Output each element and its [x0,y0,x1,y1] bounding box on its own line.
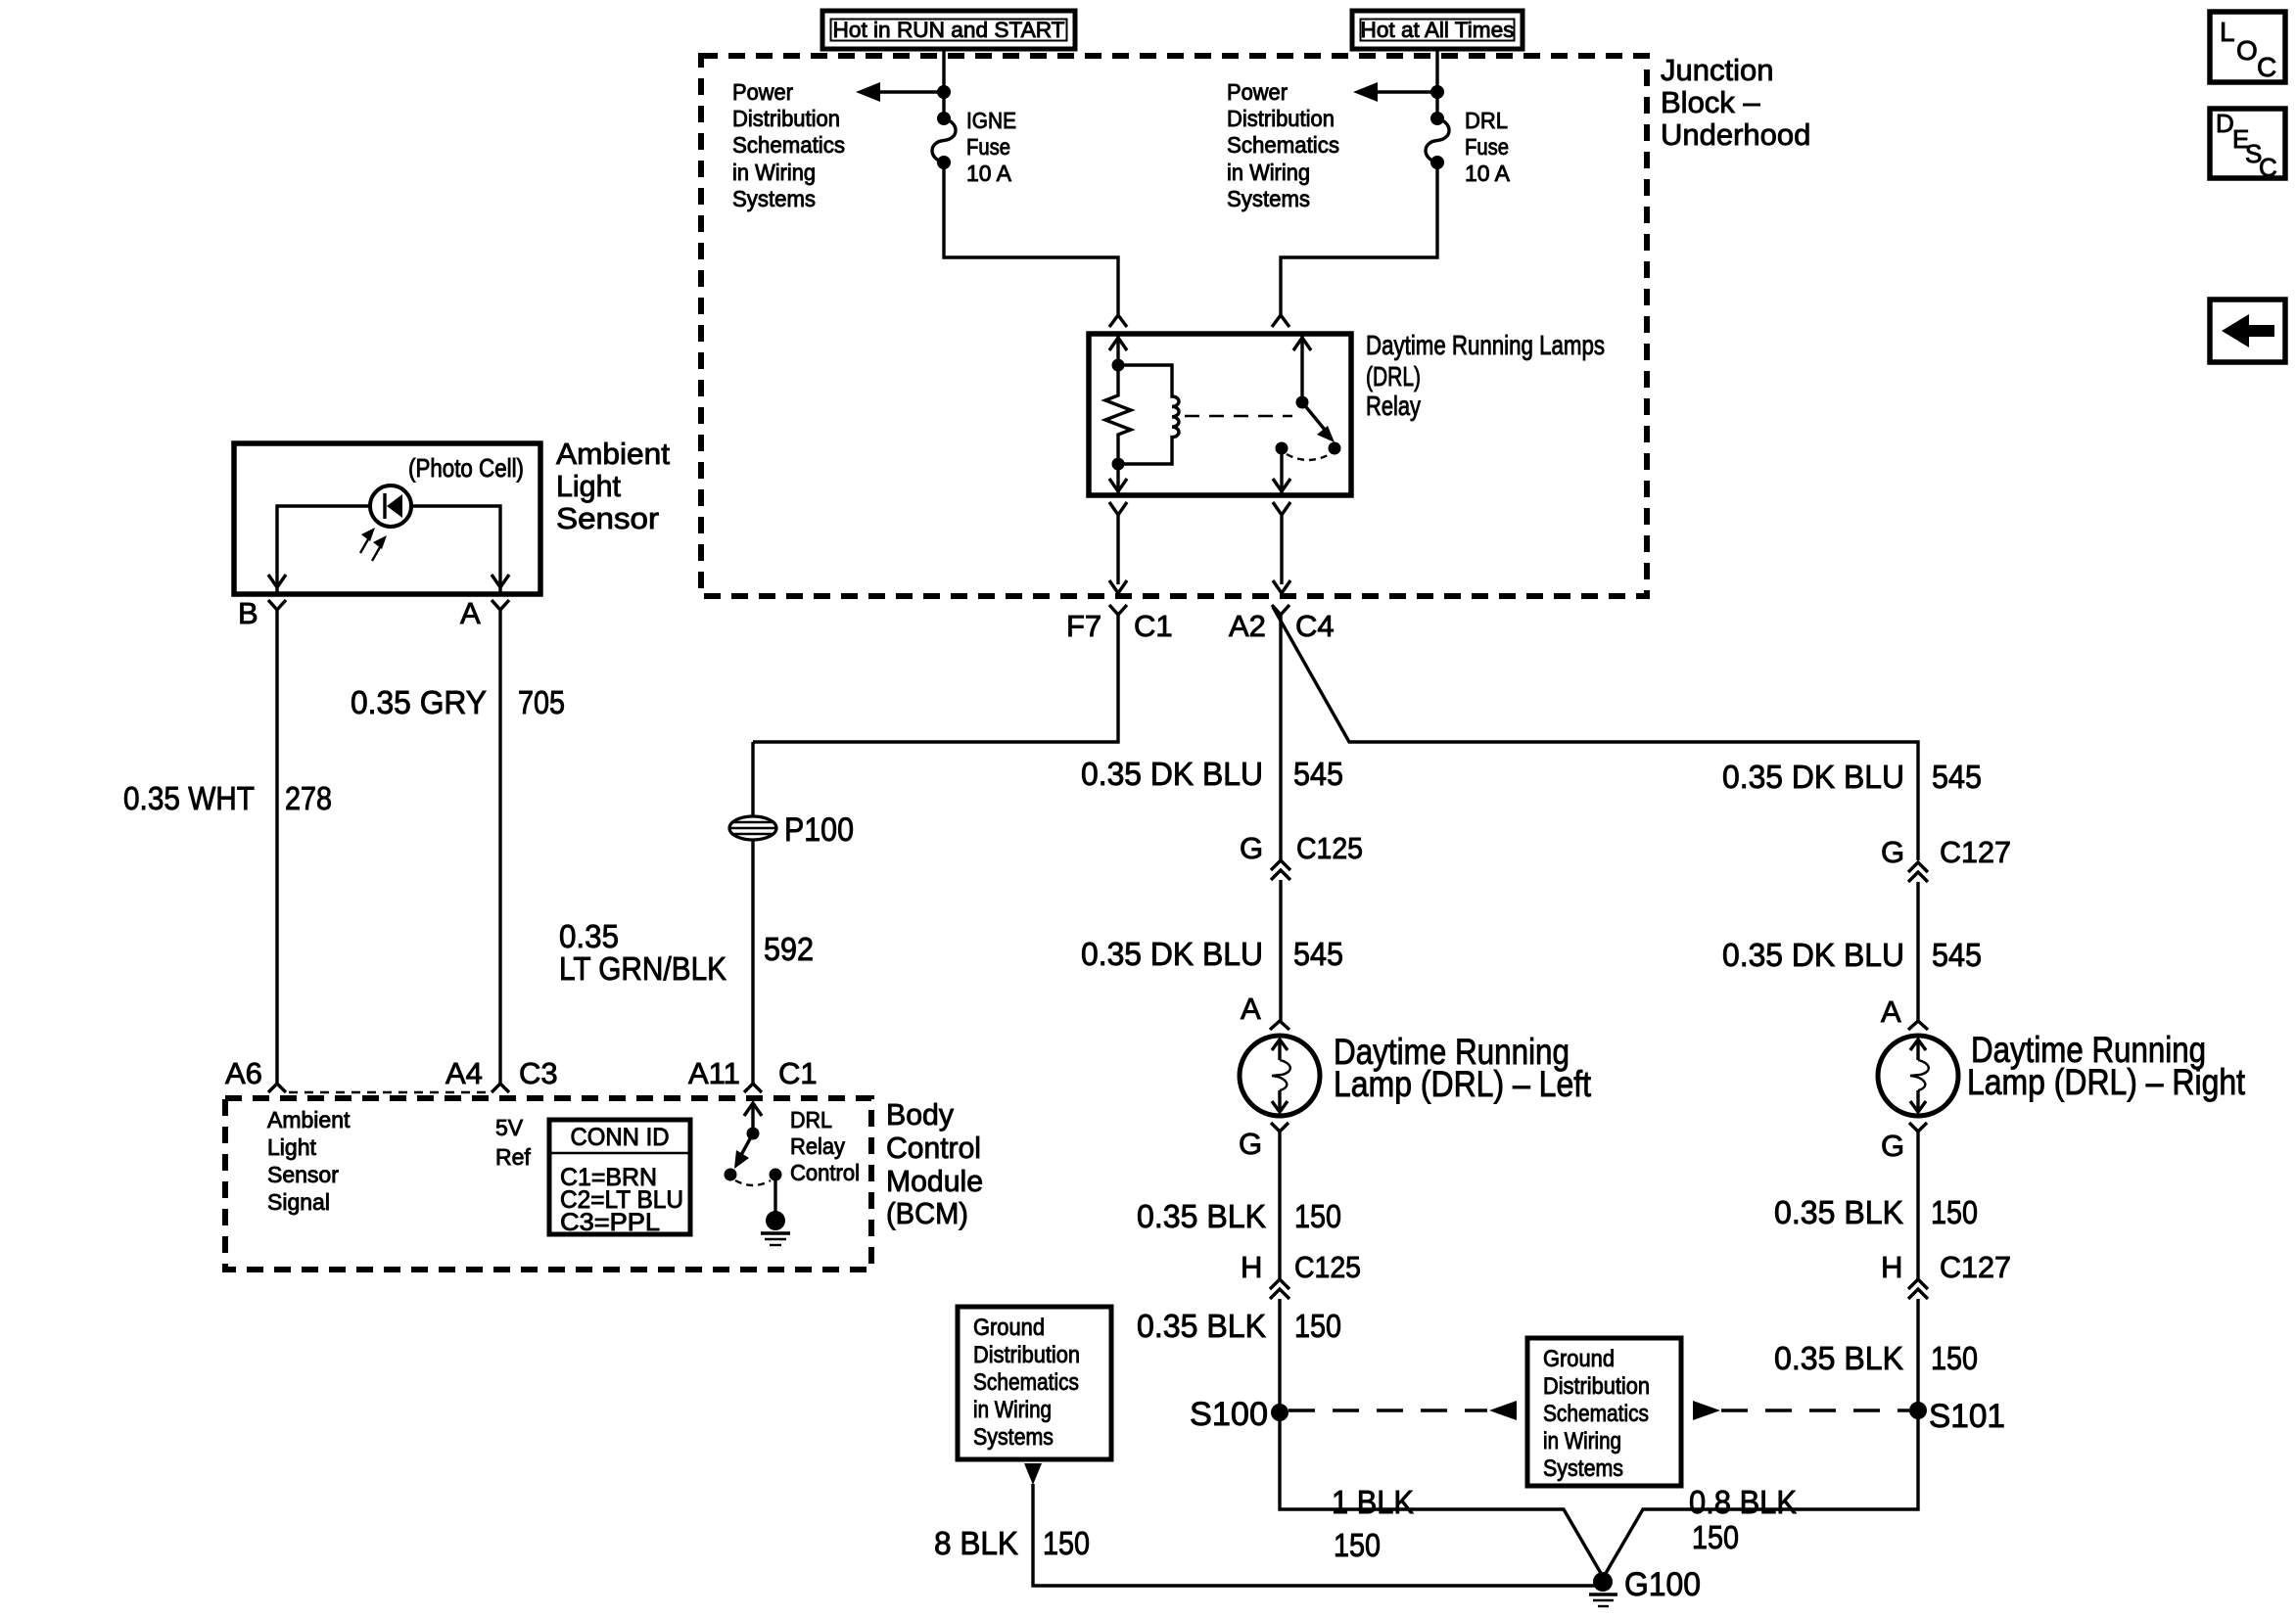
wire sensor A down to BCM A4 [498,610,501,1084]
label (Photo Cell) [408,453,524,483]
svg-text:Light: Light [267,1134,316,1160]
svg-text:in Wiring: in Wiring [1543,1428,1621,1455]
relay U1 box: Daytime Running Lamps (DRL) Relay [1089,334,1351,495]
svg-text:Junction: Junction [1661,53,1773,87]
body control module dashed enclosure [225,1098,871,1270]
svg-text:0.35 BLK: 0.35 BLK [1137,1198,1266,1234]
svg-text:A: A [1881,994,1901,1029]
wire diagonal from C4 to right lamp feed bus [1273,607,1918,860]
BCM switch pivot dot [747,1128,760,1140]
wire 8 BLK to G100 [1033,1484,1602,1586]
BCM label DRL Relay Control [790,1107,860,1185]
circuit number 150 (right upper) [1931,1194,1978,1230]
svg-text:in Wiring: in Wiring [1227,160,1310,185]
BCM internal ground G [761,1175,790,1245]
pin label H at C125 [1241,1250,1262,1284]
svg-text:Fuse: Fuse [966,134,1010,160]
wire branch to power distribution (left arrow) [856,82,944,102]
BCM label 5V Ref [495,1115,531,1170]
svg-text:5V: 5V [495,1115,524,1140]
relay switch pivot dot [1296,396,1309,409]
svg-text:0.35: 0.35 [559,918,619,954]
relay switch common wire with up arrow [1293,334,1311,402]
pin label A right lamp [1881,994,1901,1029]
pin label G at C125 [1240,831,1263,865]
wire relay switch output down to junction block edge [1273,515,1290,593]
power feed box "Hot in RUN and START" [822,11,1075,49]
svg-text:0.35 GRY: 0.35 GRY [351,684,487,720]
wire sensor B down to BCM A6 [275,610,278,1084]
junction dot on IGNE feed [937,85,951,99]
photocell light arrows [360,528,387,561]
svg-text:545: 545 [1932,937,1982,973]
wire label 0.35 GRY [351,684,487,720]
svg-text:Body: Body [886,1097,954,1132]
svg-text:DRL: DRL [790,1107,832,1132]
svg-text:Distribution: Distribution [973,1342,1080,1368]
svg-text:278: 278 [285,780,332,816]
svg-text:S101: S101 [1929,1398,2005,1435]
relay switch output wire with down arrow [1273,448,1290,495]
svg-text:Systems: Systems [1227,186,1310,211]
wire label 0.35 WHT [123,780,255,816]
CONN ID table [549,1120,690,1236]
sensor pin B arrow inside box [268,575,286,587]
pin label A [460,596,481,630]
svg-text:P100: P100 [784,811,854,849]
relay switch blade with arrowhead [1302,402,1335,442]
BCM switch contact dot left [725,1169,737,1181]
wire from F7/C1 down, jog left toward BCM [753,615,1118,742]
wire label 0.35 BLK (right lower) [1774,1340,1903,1376]
label Daytime Running Lamp (DRL) - Left [1334,1032,1592,1104]
ground G100 symbol [1589,1572,1617,1606]
circuit number 545 (left upper) [1293,756,1343,792]
svg-text:Control: Control [886,1131,981,1165]
svg-text:A6: A6 [225,1056,262,1090]
wire label 0.35 LT GRN/BLK [559,918,726,987]
svg-text:0.35 WHT: 0.35 WHT [123,780,255,816]
pin label F7 [1066,609,1101,643]
wire label 0.8 BLK [1689,1484,1797,1520]
page tab box LOC [2210,12,2285,82]
svg-text:H: H [1881,1250,1902,1284]
svg-text:0.35 DK BLU: 0.35 DK BLU [1081,936,1263,972]
label S100 [1190,1396,1268,1433]
circuit number 545 (left lower) [1293,936,1343,972]
svg-text:Relay: Relay [1366,391,1421,421]
fuse IGNE 10 A [932,112,956,169]
svg-text:Relay: Relay [790,1133,845,1159]
label IGNE Fuse 10 A [966,108,1016,186]
svg-text:DRL: DRL [1465,108,1508,133]
svg-text:LT GRN/BLK: LT GRN/BLK [559,950,726,987]
wire label 0.35 BLK (left upper) [1137,1198,1266,1234]
svg-text:592: 592 [764,931,814,967]
svg-text:C127: C127 [1940,835,2011,869]
svg-text:C1: C1 [1134,609,1173,643]
splice dashed tie note box to S101 [1721,1409,1909,1411]
svg-text:10 A: 10 A [966,161,1012,186]
svg-text:150: 150 [1294,1198,1341,1234]
svg-text:G: G [1881,1129,1904,1163]
svg-text:Hot at All Times: Hot at All Times [1361,18,1515,42]
connector chevron below relay coil pin [1109,502,1127,515]
svg-text:Systems: Systems [973,1424,1054,1451]
inline connector C127 double chevron [1908,862,1928,882]
svg-text:Schematics: Schematics [732,132,845,158]
svg-text:Systems: Systems [1543,1455,1623,1482]
wire C125 down to splice S100 [1278,1299,1281,1412]
svg-text:150: 150 [1931,1340,1978,1376]
label DRL Fuse 10 A [1465,108,1511,186]
pin label A2 [1229,609,1266,643]
wire C127 to right lamp [1916,882,1919,1021]
pin label G at C127 [1881,835,1904,869]
svg-text:Ground: Ground [1543,1346,1615,1372]
note text: Power Distribution Schematics in Wiring Systems (left) [732,79,845,211]
circuit number 150 (left upper) [1294,1198,1341,1234]
svg-text:G: G [1240,831,1263,865]
note text: Power Distribution Schematics in Wiring Systems (right) [1227,79,1339,211]
connector chevron above relay switch pin [1272,315,1289,327]
svg-text:in Wiring: in Wiring [973,1397,1052,1423]
svg-text:CONN ID: CONN ID [571,1124,670,1151]
svg-text:Ambient: Ambient [556,437,670,471]
arrow from ground distribution box down [1024,1463,1042,1485]
splice dashed tie S100 to note box [1289,1409,1487,1411]
svg-text:C: C [2259,153,2277,182]
connector chevron below relay switch pin [1273,502,1290,515]
svg-text:545: 545 [1293,756,1343,792]
dashed connector tie line A6 to A4 [289,1091,489,1093]
connector label C127 [1940,835,2011,869]
svg-text:Block –: Block – [1661,85,1760,119]
wire relay coil output down to junction block edge [1109,515,1127,593]
svg-text:F7: F7 [1066,609,1101,643]
svg-text:150: 150 [1334,1527,1381,1563]
wire label 8 BLK [934,1525,1018,1561]
svg-text:Schematics: Schematics [973,1369,1079,1396]
inductor coil of relay [1118,365,1179,464]
svg-text:A: A [1241,992,1261,1026]
inline connector C125 double chevron lower [1270,1279,1289,1299]
wire C127 down to splice S101 [1916,1299,1919,1410]
circuit number 545 (right upper) [1932,759,1982,795]
svg-text:Systems: Systems [732,186,816,211]
svg-text:545: 545 [1932,759,1982,795]
pin label A6 [225,1056,262,1090]
pass-through grommet P100 [729,816,776,840]
svg-text:10 A: 10 A [1465,161,1511,186]
svg-text:H: H [1241,1250,1262,1284]
svg-text:(BCM): (BCM) [886,1196,968,1230]
svg-text:G: G [1239,1127,1262,1161]
svg-text:Schematics: Schematics [1543,1401,1649,1427]
svg-text:1 BLK: 1 BLK [1332,1484,1414,1520]
wire from Hot in RUN feed down to IGNE fuse [942,49,945,118]
relay switch contact dot (normally open) [1329,442,1341,455]
connector chevron A4 at BCM [492,1084,509,1092]
svg-text:C127: C127 [1940,1250,2011,1284]
svg-text:0.35 BLK: 0.35 BLK [1137,1308,1266,1344]
connector label C125 lower [1294,1250,1361,1284]
label Junction Block - Underhood [1661,53,1810,152]
splice tie arrowhead left [1489,1401,1517,1420]
svg-text:Lamp (DRL) – Left: Lamp (DRL) – Left [1334,1064,1592,1104]
label S101 [1929,1398,2005,1435]
svg-text:(Photo Cell): (Photo Cell) [408,453,524,483]
wire DRL fuse down and jog left to relay switch pin [1281,162,1437,315]
svg-text:0.35 DK BLU: 0.35 DK BLU [1722,937,1904,973]
page tab box DESC [2210,109,2285,182]
junction dot on DRL feed [1430,85,1444,99]
svg-text:Ambient: Ambient [267,1107,351,1132]
BCM switch blade with arrowhead [734,1133,753,1169]
pin label A4 [445,1056,483,1090]
svg-text:Light: Light [556,469,621,503]
photocell internal wire [277,506,500,594]
circuit number 150 (left lower) [1294,1308,1341,1344]
pin label C1 [1134,609,1173,643]
wire label 1 BLK [1332,1484,1414,1520]
wire label 0.35 DK BLU (left lower) [1081,936,1263,972]
svg-text:150: 150 [1931,1194,1978,1230]
pin label A left lamp [1241,992,1261,1026]
svg-text:150: 150 [1692,1519,1739,1555]
splice tie arrowhead right [1693,1401,1720,1420]
connector chevron A11 at BCM [744,1084,762,1092]
pin label G below right lamp [1881,1129,1904,1163]
svg-text:L: L [2220,17,2235,47]
splice S100 dot [1271,1404,1289,1421]
svg-text:(DRL): (DRL) [1366,361,1421,392]
svg-text:Hot in RUN and START: Hot in RUN and START [833,18,1065,42]
svg-text:Lamp (DRL) – Right: Lamp (DRL) – Right [1967,1062,2246,1102]
relay internal dashed actuation line [1185,415,1292,417]
wire label 0.35 DK BLU (left upper) [1081,756,1263,792]
label P100 [784,811,854,849]
svg-text:Sensor: Sensor [267,1162,339,1187]
ground distribution note box (left) [958,1307,1111,1459]
BCM driver switch input arrow A11 [744,1102,762,1133]
svg-text:A11: A11 [688,1056,740,1090]
connector F7/C1 chevron below junction block [1109,605,1127,615]
wire label 0.35 BLK (right upper) [1774,1194,1903,1230]
svg-text:A: A [460,596,481,630]
relay switch dashed throw arc [1287,454,1330,460]
wire label 0.35 DK BLU (right upper) [1722,759,1904,795]
svg-text:150: 150 [1043,1525,1090,1561]
connector chevron above relay left pin [1109,315,1127,327]
label Ambient Light Sensor [556,437,670,535]
svg-text:A4: A4 [445,1056,483,1090]
wire IGNE fuse down and jog right to relay pin [944,162,1118,315]
circuit number label 705 [518,684,565,720]
resistor (relay coil suppression) [1105,365,1131,464]
circuit number 150 under 1 BLK [1334,1527,1381,1563]
svg-text:Fuse: Fuse [1465,134,1509,160]
svg-text:Distribution: Distribution [1227,106,1335,131]
relay coil output wire with down arrow [1109,464,1127,495]
wire A2 down to left lamp [1279,615,1282,860]
ground distribution note box (center) [1527,1338,1681,1486]
svg-text:C3=PPL: C3=PPL [560,1209,660,1236]
svg-text:Control: Control [790,1160,860,1185]
svg-text:0.8 BLK: 0.8 BLK [1689,1484,1797,1520]
relay node dot coil bottom [1112,458,1125,471]
wire label 0.35 BLK (left lower) [1137,1308,1266,1344]
connector label C127 lower [1940,1250,2011,1284]
svg-text:C4: C4 [1295,609,1335,643]
svg-text:0.35 DK BLU: 0.35 DK BLU [1081,756,1263,792]
connector label C125 [1296,831,1363,865]
svg-text:705: 705 [518,684,565,720]
page tab box back arrow [2210,300,2285,362]
label G100 [1624,1566,1701,1603]
pin label C1 at BCM [778,1056,818,1090]
connector chevron below sensor pin B [268,600,286,610]
svg-text:C125: C125 [1296,831,1363,865]
svg-text:C: C [2257,52,2276,82]
circuit number label 592 [764,931,814,967]
svg-text:in Wiring: in Wiring [732,160,816,185]
sensor pin A arrow inside box [492,575,509,587]
svg-text:B: B [238,596,258,630]
wire branch to power distribution (left arrow, right side) [1353,82,1437,102]
circuit number 150 for 8 BLK [1043,1525,1090,1561]
circuit number label 278 [285,780,332,816]
inline connector C127 double chevron lower [1908,1279,1928,1299]
connector chevron A6 at BCM [268,1084,286,1092]
wire from Hot at All Times feed down to DRL fuse [1435,49,1438,118]
svg-text:8 BLK: 8 BLK [934,1525,1018,1561]
label Body Control Module (BCM) [886,1097,983,1230]
connector chevron below sensor pin A [492,600,509,610]
circuit number 545 (right lower) [1932,937,1982,973]
pin label A11 [688,1056,740,1090]
photocell diode symbol [370,485,411,527]
BCM switch dashed throw arc [735,1180,771,1185]
pin label H at C127 [1881,1250,1902,1284]
svg-text:C1: C1 [778,1056,818,1090]
pin label B [238,596,258,630]
pin label C4 [1295,609,1335,643]
wire left lamp down to C125 H [1278,1132,1281,1279]
circuit number 150 under 0.8 BLK [1692,1519,1739,1555]
svg-text:Daytime Running Lamps: Daytime Running Lamps [1366,330,1605,360]
svg-text:Signal: Signal [267,1189,330,1215]
svg-text:Distribution: Distribution [1543,1373,1650,1400]
connector chevron below left lamp [1271,1123,1289,1132]
relay node dot coil top [1112,359,1125,372]
BCM input label Ambient Light Sensor Signal [267,1107,351,1215]
svg-text:D: D [2216,109,2234,138]
splice S101 dot [1909,1402,1927,1419]
svg-text:S100: S100 [1190,1396,1268,1433]
relay coil pin wire with up arrow [1109,334,1127,365]
svg-text:Ground: Ground [973,1315,1045,1341]
svg-text:150: 150 [1294,1308,1341,1344]
svg-text:Module: Module [886,1164,983,1198]
fuse DRL 10 A [1426,112,1449,169]
pin label G below left lamp [1239,1127,1262,1161]
svg-text:O: O [2236,35,2258,66]
label Daytime Running Lamp (DRL) - Right [1967,1030,2246,1102]
wire down from BCM bus to P100 and BCM A11 [751,742,754,1084]
connector A2/C4 chevron below junction block [1272,605,1289,615]
svg-text:Underhood: Underhood [1661,117,1810,152]
pin label C3 [519,1056,558,1090]
svg-text:Schematics: Schematics [1227,132,1339,158]
lamp DRL left symbol [1240,1036,1320,1116]
svg-text:G100: G100 [1624,1566,1701,1603]
svg-text:Distribution: Distribution [732,106,840,131]
BCM switch contact dot right [770,1169,782,1181]
wire C125 to left lamp [1279,880,1282,1021]
svg-text:IGNE: IGNE [966,108,1016,133]
connector chevron above left lamp [1270,1021,1289,1030]
svg-text:A2: A2 [1229,609,1266,643]
svg-text:Sensor: Sensor [556,501,659,535]
wire S101 down to ground bus [1605,1410,1918,1575]
svg-text:0.35 BLK: 0.35 BLK [1774,1194,1903,1230]
lamp DRL right symbol [1878,1036,1958,1116]
svg-text:0.35 DK BLU: 0.35 DK BLU [1722,759,1904,795]
svg-text:C3: C3 [519,1056,558,1090]
wire S100 down to ground bus [1280,1412,1602,1575]
ambient light sensor box [234,443,540,594]
label Daytime Running Lamps (DRL) Relay [1366,330,1605,421]
inline connector C125 double chevron [1271,860,1290,880]
junction block underhood dashed enclosure [701,56,1647,596]
svg-text:G: G [1881,835,1904,869]
svg-text:545: 545 [1293,936,1343,972]
relay switch output contact dot [1276,442,1289,455]
wire label 0.35 DK BLU (right lower) [1722,937,1904,973]
wire right lamp down to C127 H [1916,1132,1919,1279]
svg-text:C125: C125 [1294,1250,1361,1284]
power feed box "Hot at All Times" [1352,11,1523,49]
svg-text:Power: Power [1227,79,1288,105]
circuit number 150 (right lower) [1931,1340,1978,1376]
connector chevron below right lamp [1909,1123,1927,1132]
connector chevron above right lamp [1908,1021,1928,1030]
svg-text:Power: Power [732,79,793,105]
svg-text:Ref: Ref [495,1144,531,1170]
svg-text:0.35 BLK: 0.35 BLK [1774,1340,1903,1376]
